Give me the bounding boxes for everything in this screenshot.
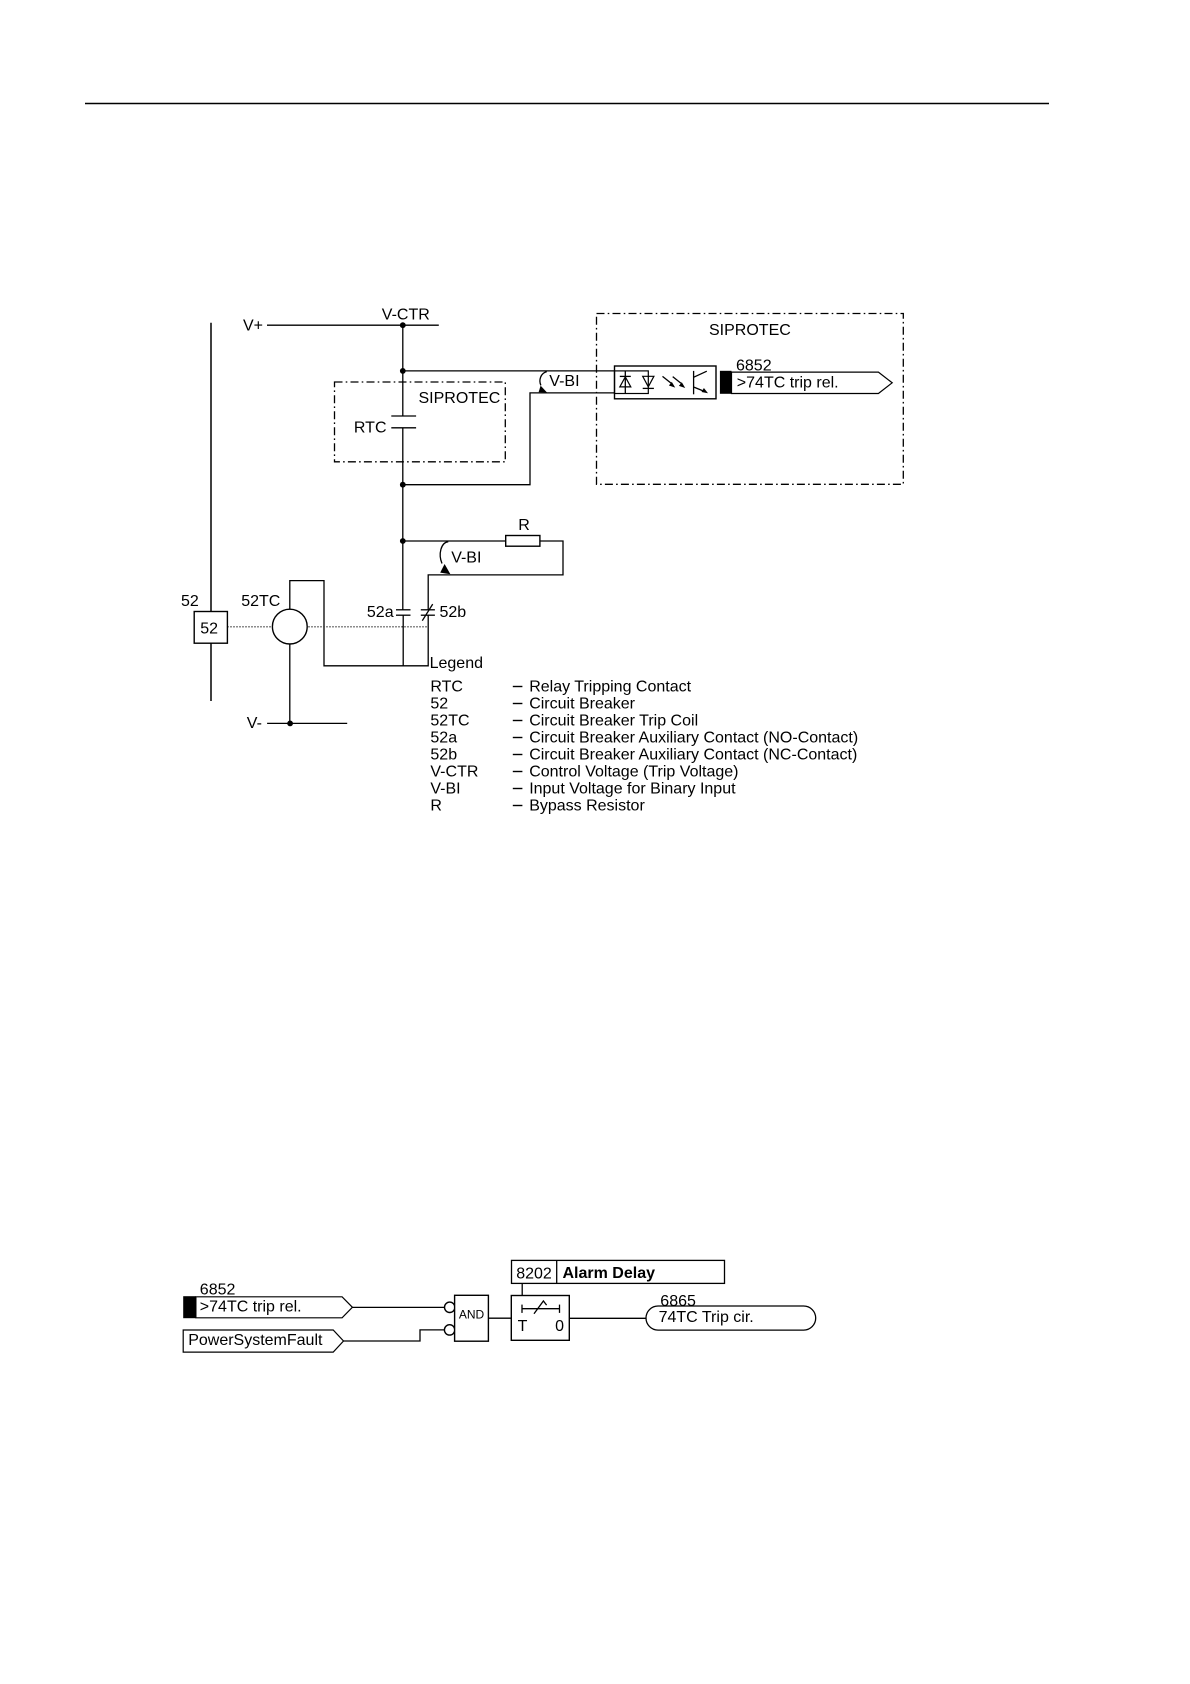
wire 52b lower and return xyxy=(290,581,428,666)
wire R loop xyxy=(428,541,563,610)
svg-text:PowerSystemFault: PowerSystemFault xyxy=(188,1332,323,1349)
wire PowerSystemFault to AND xyxy=(344,1330,445,1341)
svg-text:V-BI: V-BI xyxy=(549,373,579,390)
junction dot V- xyxy=(287,721,293,727)
svg-text:6852: 6852 xyxy=(200,1282,236,1299)
output flag 6865 74TC Trip cir. xyxy=(646,1293,816,1330)
wire timer to output xyxy=(569,1317,646,1319)
wire main vertical upper xyxy=(402,325,404,416)
header rule xyxy=(85,103,1049,105)
SIPROTEC relay dash-dot box xyxy=(335,382,506,462)
trip coil 52TC xyxy=(272,609,307,644)
svg-text:V-BI: V-BI xyxy=(430,780,460,797)
svg-text:V-BI: V-BI xyxy=(451,549,481,566)
V-BI arrow label top xyxy=(540,372,547,386)
junction dot V-CTR xyxy=(400,322,406,328)
gate AND U2 xyxy=(444,1295,488,1341)
svg-text:74TC Trip cir.: 74TC Trip cir. xyxy=(659,1309,754,1326)
svg-text:Relay Tripping Contact: Relay Tripping Contact xyxy=(529,678,691,695)
svg-text:V-CTR: V-CTR xyxy=(382,307,430,324)
diode D2 xyxy=(643,376,654,387)
svg-text:52: 52 xyxy=(200,620,218,637)
svg-text:Bypass Resistor: Bypass Resistor xyxy=(529,797,645,814)
signal flag 6852 top xyxy=(720,357,892,394)
light arrows xyxy=(663,376,672,383)
svg-text:>74TC trip rel.: >74TC trip rel. xyxy=(737,374,839,391)
resistor R xyxy=(506,536,540,547)
svg-text:V-: V- xyxy=(247,715,262,732)
svg-text:0: 0 xyxy=(555,1318,564,1335)
svg-text:52b: 52b xyxy=(430,746,457,763)
parameter box 8202 Alarm Delay xyxy=(512,1260,725,1283)
svg-text:52TC: 52TC xyxy=(430,712,469,729)
junction dot lower branch xyxy=(400,482,406,488)
svg-text:Input Voltage for Binary Input: Input Voltage for Binary Input xyxy=(529,780,736,797)
svg-text:Control Voltage (Trip Voltage): Control Voltage (Trip Voltage) xyxy=(529,763,738,780)
mechanical link dotted line xyxy=(227,626,428,628)
contact RTC xyxy=(391,415,416,417)
svg-text:R: R xyxy=(518,517,530,534)
svg-text:52b: 52b xyxy=(440,604,467,621)
svg-text:Alarm Delay: Alarm Delay xyxy=(563,1265,656,1282)
junction dot R branch xyxy=(400,538,406,544)
svg-text:R: R xyxy=(430,797,442,814)
wire V- horizontal xyxy=(267,722,347,724)
wire to binary input top xyxy=(403,370,615,372)
diode D1 xyxy=(624,371,626,394)
svg-text:V-CTR: V-CTR xyxy=(430,763,478,780)
legend xyxy=(430,655,859,814)
wire AND to timer xyxy=(488,1317,511,1319)
svg-text:Circuit Breaker Auxiliary Cont: Circuit Breaker Auxiliary Contact (NO-Co… xyxy=(529,729,858,746)
svg-text:>74TC trip rel.: >74TC trip rel. xyxy=(200,1298,302,1315)
wire R branch xyxy=(403,540,506,542)
svg-text:52a: 52a xyxy=(430,729,457,746)
svg-text:SIPROTEC: SIPROTEC xyxy=(709,322,791,339)
svg-text:RTC: RTC xyxy=(354,419,387,436)
svg-text:6852: 6852 xyxy=(736,357,772,374)
signal flag 6852 bottom xyxy=(183,1282,352,1319)
svg-text:T: T xyxy=(518,1318,528,1335)
V-BI arrow label bottom xyxy=(440,542,448,564)
timer T1 xyxy=(511,1296,569,1341)
svg-text:Circuit Breaker Trip Coil: Circuit Breaker Trip Coil xyxy=(529,712,698,729)
contact 52a xyxy=(396,609,411,611)
svg-text:Circuit Breaker Auxiliary Cont: Circuit Breaker Auxiliary Contact (NC-Co… xyxy=(529,746,857,763)
svg-text:RTC: RTC xyxy=(430,678,463,695)
svg-text:52a: 52a xyxy=(367,604,394,621)
wire lower branch to V-BI bottom xyxy=(403,393,615,485)
svg-text:Circuit Breaker: Circuit Breaker xyxy=(529,695,635,712)
wire V+ horizontal xyxy=(267,324,439,326)
svg-text:8202: 8202 xyxy=(516,1266,552,1283)
svg-text:52: 52 xyxy=(430,695,448,712)
wire main vertical middle xyxy=(402,428,404,610)
contact 52b xyxy=(421,609,435,611)
wire coil to V- xyxy=(289,644,291,723)
svg-text:AND: AND xyxy=(459,1308,485,1322)
svg-text:SIPROTEC: SIPROTEC xyxy=(419,390,501,407)
svg-text:52: 52 xyxy=(181,593,199,610)
junction dot top branch xyxy=(400,368,406,374)
phototransistor Q1 xyxy=(693,371,695,394)
svg-text:Legend: Legend xyxy=(430,655,483,672)
wire busbar xyxy=(210,323,212,701)
SIPROTEC device dash-dot box xyxy=(597,314,904,485)
svg-text:V+: V+ xyxy=(243,318,263,335)
wire 52a lower xyxy=(402,615,404,666)
wire 8202 to timer xyxy=(521,1283,523,1295)
svg-text:52TC: 52TC xyxy=(241,593,280,610)
signal flag PowerSystemFault xyxy=(183,1330,343,1352)
wire 6852 to AND xyxy=(352,1306,444,1308)
breaker 52 box xyxy=(194,612,227,644)
binary input optocoupler U1 xyxy=(615,366,717,399)
